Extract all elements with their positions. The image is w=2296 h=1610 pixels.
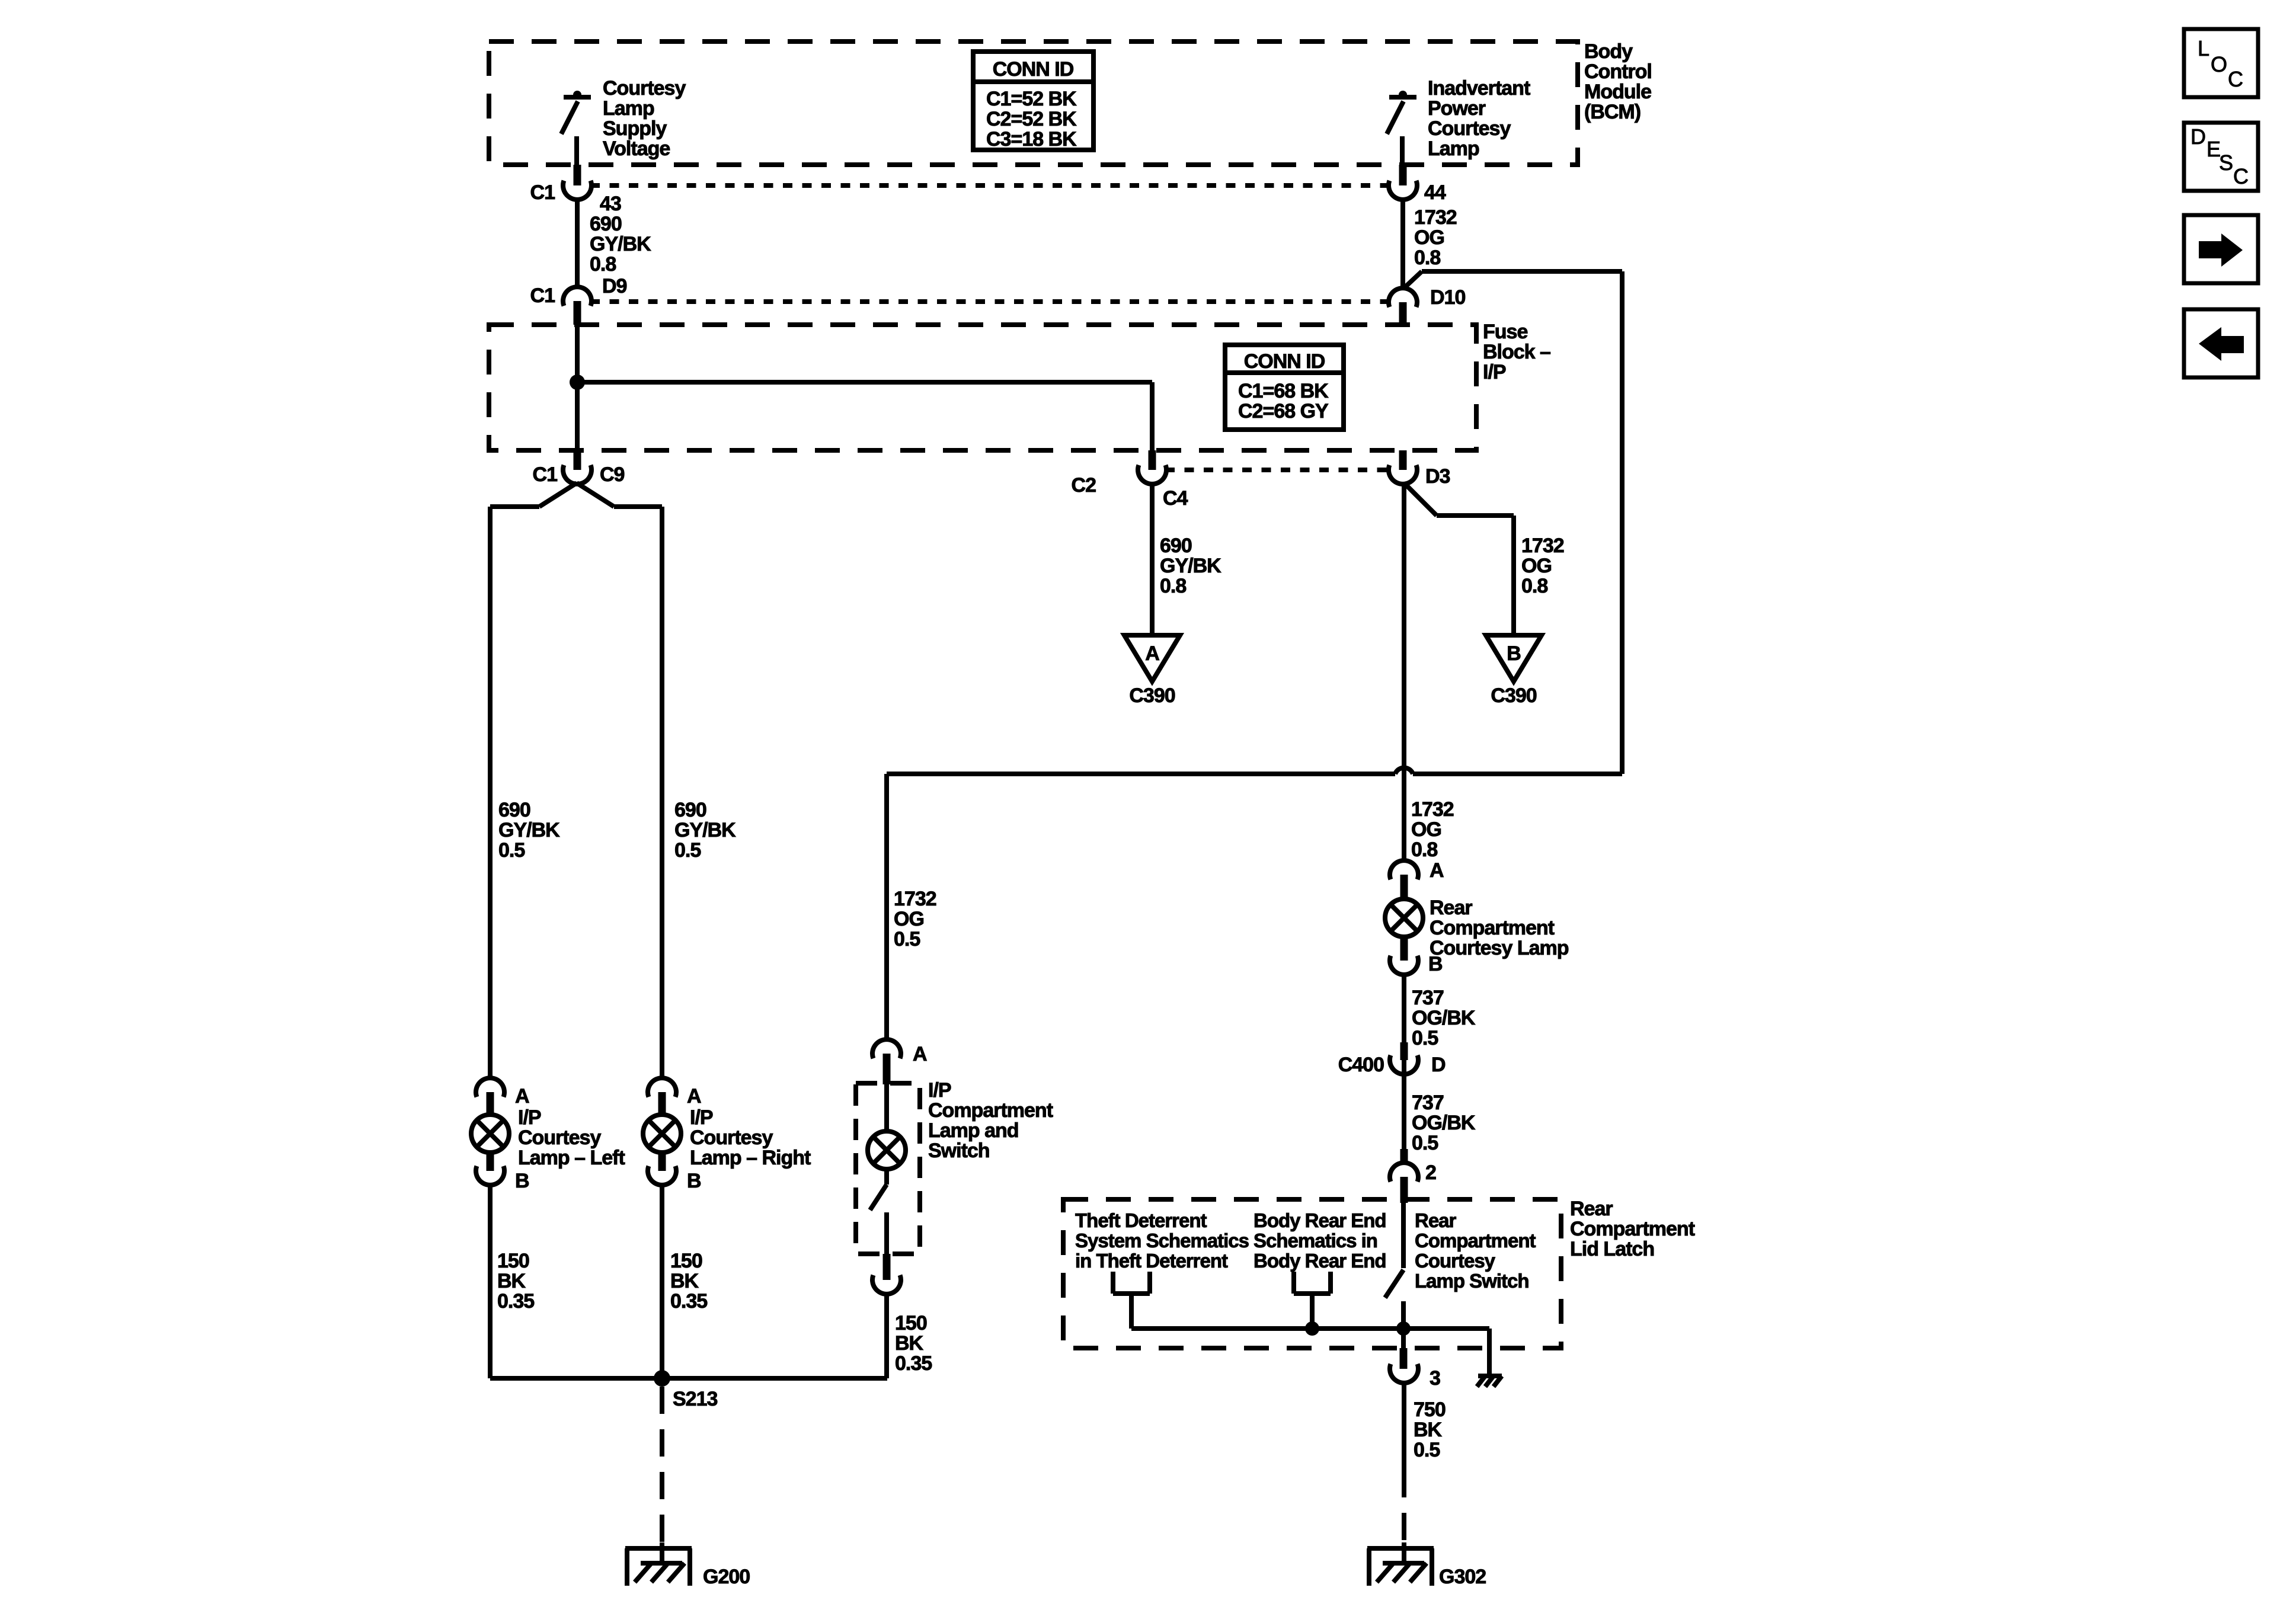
svg-text:Schematics in: Schematics in xyxy=(1253,1230,1377,1251)
svg-text:C1: C1 xyxy=(530,181,555,204)
svg-text:Rear: Rear xyxy=(1570,1198,1613,1220)
svg-text:737: 737 xyxy=(1412,1092,1444,1114)
svg-text:Inadvertant: Inadvertant xyxy=(1428,77,1530,100)
svg-text:I/P: I/P xyxy=(928,1079,951,1102)
svg-text:S213: S213 xyxy=(673,1388,717,1410)
svg-text:A: A xyxy=(1145,642,1159,665)
svg-text:0.35: 0.35 xyxy=(670,1290,707,1313)
svg-text:OG: OG xyxy=(894,908,924,930)
svg-text:G200: G200 xyxy=(703,1566,750,1588)
svg-text:C: C xyxy=(2233,164,2249,188)
svg-text:BK: BK xyxy=(895,1332,924,1355)
svg-text:GY/BK: GY/BK xyxy=(674,819,736,841)
svg-text:D: D xyxy=(1431,1054,1446,1076)
svg-text:B: B xyxy=(515,1170,529,1192)
svg-text:0.5: 0.5 xyxy=(894,928,920,950)
svg-text:150: 150 xyxy=(497,1250,529,1272)
svg-text:Lamp: Lamp xyxy=(1428,137,1479,160)
svg-text:Block –: Block – xyxy=(1483,341,1550,363)
svg-text:B: B xyxy=(687,1170,701,1192)
svg-text:0.35: 0.35 xyxy=(497,1290,534,1313)
svg-text:1732: 1732 xyxy=(1521,534,1564,557)
svg-text:0.5: 0.5 xyxy=(1412,1132,1438,1154)
svg-text:Lid Latch: Lid Latch xyxy=(1570,1238,1654,1260)
svg-text:C2=68 GY: C2=68 GY xyxy=(1238,400,1329,422)
svg-text:OG: OG xyxy=(1414,226,1444,249)
svg-text:CONN ID: CONN ID xyxy=(993,58,1074,81)
svg-text:C1=52 BK: C1=52 BK xyxy=(986,88,1077,110)
svg-text:Theft Deterrent: Theft Deterrent xyxy=(1075,1209,1207,1231)
svg-text:Body Rear End: Body Rear End xyxy=(1253,1250,1386,1272)
svg-text:3: 3 xyxy=(1430,1367,1440,1390)
svg-text:737: 737 xyxy=(1412,987,1444,1009)
svg-text:D3: D3 xyxy=(1425,465,1450,488)
svg-text:L: L xyxy=(2198,36,2209,60)
svg-text:C4: C4 xyxy=(1163,487,1188,510)
svg-text:A: A xyxy=(913,1043,927,1065)
svg-text:Courtesy: Courtesy xyxy=(518,1126,601,1149)
svg-text:Courtesy: Courtesy xyxy=(1428,117,1511,140)
svg-text:A: A xyxy=(687,1085,701,1108)
svg-text:C9: C9 xyxy=(600,463,625,486)
svg-text:Voltage: Voltage xyxy=(603,137,670,160)
svg-text:Courtesy Lamp: Courtesy Lamp xyxy=(1430,937,1569,959)
svg-text:(BCM): (BCM) xyxy=(1584,101,1641,123)
svg-text:Courtesy: Courtesy xyxy=(603,77,686,100)
svg-text:Module: Module xyxy=(1584,81,1651,103)
svg-text:A: A xyxy=(1430,859,1444,882)
svg-text:O: O xyxy=(2211,52,2227,76)
svg-text:Courtesy: Courtesy xyxy=(690,1126,773,1149)
svg-text:G302: G302 xyxy=(1439,1566,1486,1588)
svg-text:0.8: 0.8 xyxy=(1414,247,1440,269)
svg-text:C1=68 BK: C1=68 BK xyxy=(1238,380,1329,402)
svg-text:0.8: 0.8 xyxy=(1521,575,1547,597)
svg-text:Fuse: Fuse xyxy=(1483,321,1527,343)
svg-text:Rear: Rear xyxy=(1430,897,1472,919)
svg-text:Switch: Switch xyxy=(928,1140,990,1162)
svg-text:2: 2 xyxy=(1425,1161,1436,1184)
svg-text:S: S xyxy=(2219,151,2233,175)
svg-text:750: 750 xyxy=(1414,1398,1446,1421)
svg-text:Compartment: Compartment xyxy=(1570,1218,1695,1240)
svg-text:C2=52 BK: C2=52 BK xyxy=(986,108,1077,130)
svg-text:in Theft Deterrent: in Theft Deterrent xyxy=(1075,1250,1228,1272)
svg-text:690: 690 xyxy=(1160,534,1192,557)
svg-text:CONN ID: CONN ID xyxy=(1244,350,1325,373)
svg-text:I/P: I/P xyxy=(690,1106,713,1129)
svg-text:GY/BK: GY/BK xyxy=(590,233,651,255)
svg-text:690: 690 xyxy=(498,799,530,821)
svg-text:0.8: 0.8 xyxy=(1411,838,1437,861)
svg-text:BK: BK xyxy=(497,1270,526,1292)
svg-text:1732: 1732 xyxy=(1414,206,1457,229)
svg-text:B: B xyxy=(1507,642,1521,665)
svg-text:0.35: 0.35 xyxy=(895,1352,932,1375)
svg-text:D9: D9 xyxy=(602,275,627,297)
svg-text:0.5: 0.5 xyxy=(1412,1027,1438,1049)
svg-text:0.8: 0.8 xyxy=(1160,575,1186,597)
svg-text:A: A xyxy=(515,1085,529,1108)
svg-text:System Schematics: System Schematics xyxy=(1075,1230,1249,1251)
svg-text:GY/BK: GY/BK xyxy=(1160,555,1221,577)
svg-text:0.5: 0.5 xyxy=(498,839,525,862)
svg-text:GY/BK: GY/BK xyxy=(498,819,560,841)
svg-text:Control: Control xyxy=(1584,60,1652,83)
svg-text:C3=18 BK: C3=18 BK xyxy=(986,128,1077,151)
svg-text:I/P: I/P xyxy=(1483,361,1506,383)
svg-text:Power: Power xyxy=(1428,97,1486,120)
svg-text:Compartment: Compartment xyxy=(928,1099,1053,1122)
svg-text:Compartment: Compartment xyxy=(1430,917,1555,939)
svg-text:C390: C390 xyxy=(1491,684,1536,707)
svg-text:43: 43 xyxy=(600,193,621,215)
svg-text:44: 44 xyxy=(1424,181,1446,204)
svg-text:1732: 1732 xyxy=(1411,798,1454,821)
svg-text:B: B xyxy=(1428,953,1443,975)
svg-text:Lamp and: Lamp and xyxy=(928,1119,1019,1142)
svg-text:150: 150 xyxy=(670,1250,702,1272)
svg-text:C1: C1 xyxy=(530,284,555,307)
svg-text:C: C xyxy=(2228,67,2243,91)
svg-text:D10: D10 xyxy=(1430,286,1465,309)
svg-text:690: 690 xyxy=(590,213,622,235)
svg-text:OG/BK: OG/BK xyxy=(1412,1112,1476,1134)
svg-text:0.5: 0.5 xyxy=(1414,1439,1440,1461)
svg-text:I/P: I/P xyxy=(518,1106,541,1129)
svg-text:150: 150 xyxy=(895,1312,927,1334)
svg-text:Lamp: Lamp xyxy=(603,97,654,120)
svg-text:Lamp Switch: Lamp Switch xyxy=(1415,1270,1529,1292)
svg-text:C1: C1 xyxy=(533,463,558,486)
svg-text:1732: 1732 xyxy=(894,888,936,910)
svg-text:0.8: 0.8 xyxy=(590,253,616,276)
svg-text:C390: C390 xyxy=(1129,684,1175,707)
svg-text:Lamp – Left: Lamp – Left xyxy=(518,1147,625,1169)
svg-text:Lamp – Right: Lamp – Right xyxy=(690,1147,811,1169)
svg-text:Supply: Supply xyxy=(603,117,667,140)
svg-text:C2: C2 xyxy=(1072,474,1096,497)
svg-text:C400: C400 xyxy=(1338,1054,1384,1076)
svg-text:Body: Body xyxy=(1584,40,1633,63)
svg-text:BK: BK xyxy=(1414,1419,1443,1441)
svg-text:OG: OG xyxy=(1411,818,1441,841)
svg-text:690: 690 xyxy=(674,799,706,821)
svg-text:0.5: 0.5 xyxy=(674,839,701,862)
svg-text:BK: BK xyxy=(670,1270,699,1292)
svg-text:Body Rear End: Body Rear End xyxy=(1253,1209,1386,1231)
svg-text:Compartment: Compartment xyxy=(1415,1230,1536,1251)
svg-text:Rear: Rear xyxy=(1415,1209,1457,1231)
svg-text:OG/BK: OG/BK xyxy=(1412,1007,1476,1029)
svg-text:D: D xyxy=(2191,124,2206,149)
svg-text:Courtesy: Courtesy xyxy=(1415,1250,1496,1272)
svg-text:OG: OG xyxy=(1521,555,1552,577)
